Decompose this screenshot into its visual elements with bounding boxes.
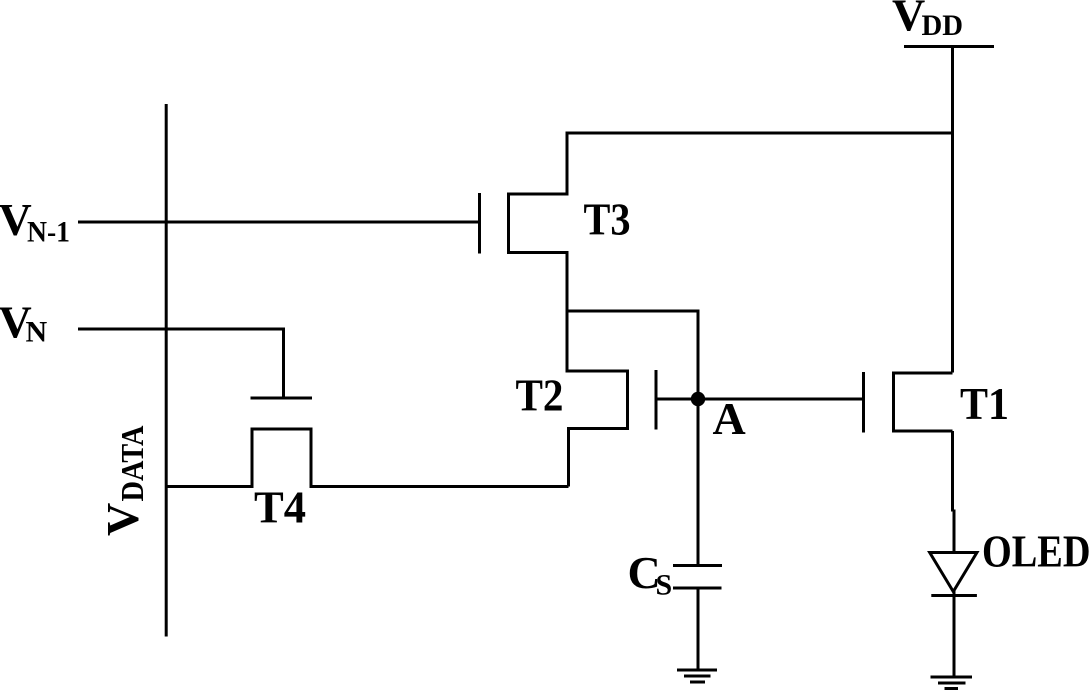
wire VN-1 gate line	[78, 221, 480, 224]
svg-text:DATA: DATA	[114, 426, 150, 502]
diode OLED triangle	[930, 553, 977, 592]
transistor T3 gate bar	[478, 193, 481, 254]
transistor T3 channel	[509, 194, 568, 253]
ground symbol under OLED	[931, 676, 973, 679]
svg-text:T4: T4	[254, 482, 306, 533]
wire T2 source vertical	[567, 429, 570, 487]
capacitor Cs top plate	[673, 564, 722, 567]
transistor T2 gate bar	[655, 370, 658, 430]
wire T1 source vertical	[951, 431, 954, 512]
svg-text:T3: T3	[584, 194, 631, 245]
transistor T1 channel	[894, 373, 953, 431]
wire branch to node column	[566, 311, 699, 566]
wire VDD vertical to T1 drain	[951, 47, 954, 373]
wire VDD supply rail bar	[904, 45, 994, 48]
wire top horizontal VDD to T3 drain	[567, 132, 953, 135]
node A junction dot	[691, 392, 705, 406]
wire T2 gate to node A	[656, 398, 698, 401]
wire T2 drain vertical	[566, 310, 569, 373]
wire T4 right terminal to T2 source	[311, 485, 569, 488]
svg-text:A: A	[713, 393, 746, 444]
svg-text:N-1: N-1	[27, 216, 70, 249]
transistor T4 channel	[252, 429, 311, 488]
wire VN horizontal and down to T4 gate	[78, 329, 284, 397]
transistor T1 gate bar	[862, 372, 865, 433]
diode OLED cathode bar	[931, 594, 977, 597]
wire node A to T1 gate	[698, 398, 864, 401]
wire OLED cathode to ground	[953, 590, 956, 677]
wire OLED anode (jogged)	[953, 510, 956, 554]
svg-text:T2: T2	[516, 370, 564, 421]
svg-text:V: V	[892, 0, 925, 41]
svg-text:DD: DD	[922, 9, 964, 42]
transistor T2 channel	[566, 371, 628, 429]
wire T3 drain vertical	[566, 132, 569, 196]
svg-text:V: V	[97, 503, 148, 536]
transistor T4 gate bar	[251, 397, 313, 400]
wire capacitor to ground	[697, 588, 700, 670]
svg-text:S: S	[656, 569, 673, 602]
capacitor Cs bottom plate	[673, 587, 722, 590]
wire VDATA rail to T4 left terminal	[166, 485, 252, 488]
wire VDATA vertical rail	[165, 104, 168, 637]
svg-text:N: N	[26, 316, 48, 349]
svg-text:OLED: OLED	[982, 526, 1091, 577]
svg-text:T1: T1	[960, 378, 1009, 429]
wire T3 source vertical	[566, 251, 569, 313]
ground symbol under capacitor	[677, 669, 717, 672]
